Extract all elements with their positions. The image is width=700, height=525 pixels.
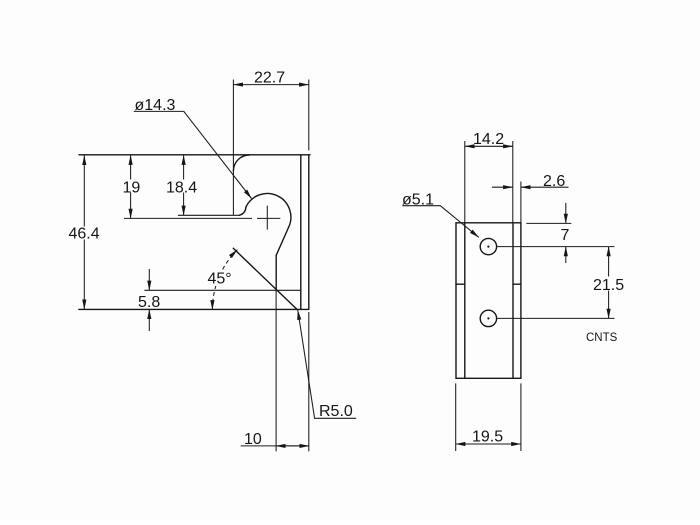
left view: fillet shelf to circle xyxy=(239,207,246,216)
left view: right inner vertical edge xyxy=(300,155,302,309)
svg-text:19.5: 19.5 xyxy=(472,429,503,446)
right view: inner right rail xyxy=(512,223,514,378)
dimension 14.2 xyxy=(465,141,513,223)
dimension 10 xyxy=(308,312,310,451)
left view: right outer vertical edge xyxy=(308,155,310,309)
left view: slot right wall + extension for 10 dim xyxy=(275,255,277,290)
svg-text:46.4: 46.4 xyxy=(69,226,100,243)
svg-text:19: 19 xyxy=(123,180,141,197)
dimension 21.5 xyxy=(608,247,610,277)
left view: keyhole circle arc dia 14.3 xyxy=(246,194,291,228)
dimension 5.8 arrows xyxy=(148,269,150,290)
svg-text:R5.0: R5.0 xyxy=(319,403,353,420)
svg-text:5.8: 5.8 xyxy=(138,294,160,311)
dimension dia 5.1 leader xyxy=(402,206,479,238)
dimension 19.5 xyxy=(456,383,521,451)
svg-text:18.4: 18.4 xyxy=(166,180,197,197)
dimension 5.8 reference line xyxy=(144,289,301,291)
dimension 45 deg: dashed angular arc xyxy=(212,250,237,310)
right view: right joint tick xyxy=(513,283,521,285)
svg-text:21.5: 21.5 xyxy=(593,277,624,294)
right view: outer rectangle xyxy=(456,223,521,378)
dimension 46.4 xyxy=(83,155,85,226)
dimension dia 14.3 leader xyxy=(134,111,252,198)
left view: shelf line (18.4 reference) xyxy=(178,214,239,216)
left view: part top edge xyxy=(79,154,310,156)
right view: bottom hole center line xyxy=(497,317,615,319)
left view: 45 degree chamfer line xyxy=(233,248,297,309)
left view: tangent line circle to slot wall xyxy=(276,228,288,256)
right view: bottom hole dia 5.1 xyxy=(480,310,496,326)
left view: keyhole slot left wall (also 22.7 extension line) xyxy=(232,80,234,216)
right view: inner left rail xyxy=(464,223,466,378)
right view: top hole dia 5.1 xyxy=(480,238,496,254)
left view: circle center mark vertical xyxy=(266,206,268,230)
svg-text:2.6: 2.6 xyxy=(543,173,565,190)
dimension 2.6 xyxy=(520,182,522,223)
dimension R5.0 leader xyxy=(298,310,356,418)
svg-text:10: 10 xyxy=(244,431,262,448)
dimension 18.4 xyxy=(183,155,185,179)
dimension 7 xyxy=(526,222,571,224)
svg-text:CNTS: CNTS xyxy=(586,332,618,344)
left view: circle center mark horizontal (19 extension) xyxy=(124,217,280,219)
dimension 19 xyxy=(130,155,132,179)
left view: part bottom edge xyxy=(79,308,309,310)
svg-text:45°: 45° xyxy=(208,271,232,288)
svg-text:ø5.1: ø5.1 xyxy=(402,191,434,208)
svg-text:ø14.3: ø14.3 xyxy=(135,97,176,114)
right view: left joint tick xyxy=(456,283,465,285)
right view: top hole center line xyxy=(497,246,615,248)
svg-text:7: 7 xyxy=(561,227,570,244)
left view: slot opening corner arc R16 xyxy=(233,155,249,171)
dimension 22.7 xyxy=(308,80,310,151)
svg-text:14.2: 14.2 xyxy=(473,131,504,148)
svg-text:22.7: 22.7 xyxy=(254,70,285,87)
